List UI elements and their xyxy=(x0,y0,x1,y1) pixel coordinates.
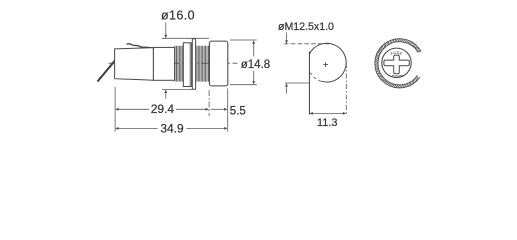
svg-text:ø14.8: ø14.8 xyxy=(241,59,270,71)
threads A xyxy=(175,46,182,82)
svg-text:11.3: 11.3 xyxy=(317,117,338,129)
M12.5 tangent line bottom xyxy=(285,82,309,84)
svg-text:ø16.0: ø16.0 xyxy=(161,9,195,23)
knurled ring outer arc xyxy=(375,39,421,88)
nut xyxy=(183,43,191,87)
34.9 dimension line xyxy=(115,127,119,130)
cone rear body xyxy=(115,48,154,81)
cap face circle xyxy=(382,48,411,77)
extension line right at bezel front xyxy=(227,89,229,132)
wire lead left xyxy=(98,61,116,82)
flat edge line / left extension xyxy=(308,52,310,115)
11.3 dimension line xyxy=(309,112,313,115)
centerline of side view xyxy=(109,62,238,64)
o16.0 extension line bottom xyxy=(162,89,193,91)
extension line left of 29.4/34.9 xyxy=(114,87,116,132)
bezel head xyxy=(209,41,227,86)
knurled ring inner arc xyxy=(378,42,418,85)
wire lead top xyxy=(127,44,153,48)
o14.8 dimension line xyxy=(253,43,255,56)
svg-text:29.4: 29.4 xyxy=(151,102,175,116)
svg-text:5.5: 5.5 xyxy=(230,105,246,117)
bottom label mark xyxy=(392,74,405,77)
thread circle hidden arc dashed xyxy=(309,71,321,81)
center mark xyxy=(323,62,328,67)
washer xyxy=(192,39,195,90)
knurl hatching xyxy=(375,39,421,88)
M12.5 leader arrow bottom xyxy=(285,83,288,87)
threads B xyxy=(197,46,209,82)
M12.5 tangent dashed line top xyxy=(284,43,329,45)
o16.0 leader arrow bottom xyxy=(164,90,167,94)
o16.0 extension line top xyxy=(162,37,209,39)
5.5 dimension line xyxy=(211,108,225,110)
o16.0 leader arrow top xyxy=(165,23,167,36)
svg-text:øM12.5x1.0: øM12.5x1.0 xyxy=(278,21,334,33)
phillips cross slot xyxy=(384,55,409,74)
nut chamfer line xyxy=(189,43,191,87)
extension line dash-dot at bezel face xyxy=(208,90,210,116)
M12.5 leader arrow top xyxy=(286,33,288,41)
svg-text:34.9: 34.9 xyxy=(160,121,184,135)
o14.8 extension line top xyxy=(230,39,257,41)
cylinder body xyxy=(153,47,174,80)
thread circle D-hole solid arc xyxy=(309,43,346,82)
o14.8 extension line bottom xyxy=(230,84,257,86)
29.4 dimension line xyxy=(115,108,119,111)
right extension dash-dot xyxy=(345,63,347,114)
